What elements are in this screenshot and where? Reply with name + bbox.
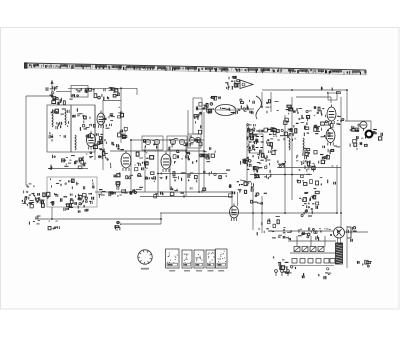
feedback group — [299, 195, 317, 209]
pin diagram box 4 — [206, 250, 215, 271]
small coupling box — [328, 93, 337, 100]
wire coupling bus arrow — [48, 168, 88, 170]
osc left group — [203, 103, 213, 114]
wire inner vertical — [94, 105, 96, 160]
tube V5 EF85 — [327, 105, 336, 125]
AGC mid marks — [48, 221, 59, 230]
IF bottom marks — [154, 187, 206, 198]
label ECH81 — [113, 144, 124, 150]
V6 grid parts — [314, 127, 330, 139]
oscillator can — [193, 98, 202, 134]
wire speaker lead — [345, 231, 368, 233]
loop antenna — [215, 105, 236, 116]
V2 anode parts — [135, 152, 154, 171]
detector parts — [188, 152, 207, 164]
input filter parts — [72, 88, 87, 97]
shield box RF left — [47, 105, 71, 152]
band coil group d — [73, 108, 91, 119]
wire right main vertical — [340, 97, 342, 228]
IF can S2 — [167, 136, 187, 150]
V5 anode parts — [314, 106, 326, 117]
ratio det parts — [297, 148, 318, 164]
eye tube EM80 — [360, 122, 372, 138]
wire eye corner — [370, 121, 372, 131]
wire IF top rail — [130, 139, 204, 141]
right rail marks — [336, 116, 344, 125]
RF top row parts — [51, 95, 72, 105]
FM mid parts 2 — [301, 122, 319, 136]
switch wafer box — [249, 134, 263, 153]
top right ticks — [322, 87, 341, 94]
wire IF v4 — [169, 146, 171, 190]
dial lamp cluster — [225, 76, 240, 90]
band select left — [241, 159, 250, 169]
tube V3 EF89 — [161, 152, 171, 173]
wire IF v3 — [157, 143, 159, 197]
tube V6 EL84 — [326, 126, 335, 146]
eye right pair — [373, 130, 382, 141]
wire AF return bus — [120, 223, 161, 225]
wire trimmer vertical — [270, 92, 272, 112]
IF coil S2 — [154, 139, 159, 144]
wire det vertical — [252, 190, 254, 230]
coil L5 — [289, 138, 290, 150]
IF coil S5 — [189, 137, 194, 142]
wire rectifier rail — [290, 252, 336, 254]
wire speaker xfmr link b — [340, 238, 342, 243]
wire corner drop — [136, 88, 138, 95]
wire cathode rail — [140, 196, 233, 198]
wire left block right edge — [102, 100, 104, 170]
triode V1b ECC85 — [87, 131, 96, 150]
wire stub to filter — [56, 91, 71, 93]
dial drive pointer — [240, 80, 253, 89]
inter-tube marks — [321, 121, 333, 131]
tube V4 EABC80 — [230, 204, 239, 222]
wire FM mid vertical — [284, 115, 286, 213]
coil L3 — [75, 135, 76, 150]
wire AGC bus — [35, 218, 161, 220]
wire IF mid rail — [110, 150, 204, 152]
wire mains vertical — [346, 226, 348, 268]
V3 grid parts — [173, 150, 190, 163]
gang trimmer marks — [118, 107, 124, 118]
IF coil S1 — [145, 139, 150, 144]
wire V4 left vertical — [231, 192, 233, 213]
AM terminal group — [24, 184, 35, 196]
dropper row — [114, 172, 198, 186]
band select group 1 — [244, 155, 271, 169]
mains row — [272, 228, 339, 241]
switch aux group — [276, 129, 295, 141]
band select group 2 — [253, 166, 271, 179]
wire loop rail b — [237, 108, 254, 110]
mains plug group — [281, 266, 296, 274]
wire main HT bus — [160, 212, 337, 214]
speaker terminals — [347, 227, 357, 242]
mains filter group — [273, 256, 289, 269]
wire HT smoothing link — [288, 240, 336, 242]
band coil group c — [49, 132, 65, 141]
coil L2 — [65, 110, 66, 125]
filament chain — [290, 259, 335, 266]
pin diagram box 1 — [166, 249, 180, 271]
wire IF v1 — [130, 140, 132, 192]
FM mid parts — [297, 108, 312, 121]
pin diagram box 5 — [216, 249, 228, 271]
tone network row 1 — [301, 160, 334, 172]
converter dense row — [25, 192, 94, 207]
IF coil S3 — [170, 139, 175, 144]
wire stub left block — [103, 100, 121, 102]
IFT3 inner parts — [189, 135, 202, 147]
wire IF v7 — [203, 112, 205, 192]
V4 grid group — [229, 182, 259, 198]
bus arrowhead — [48, 167, 52, 170]
FM left col parts — [284, 118, 299, 136]
aerial input group — [46, 87, 58, 100]
tone network row 2 — [297, 174, 336, 185]
tube base diagram — [138, 250, 152, 270]
eye tube network — [350, 124, 360, 132]
FM bottom row — [278, 160, 301, 170]
wire loop rail a — [196, 108, 214, 110]
IFT1 inner parts — [143, 140, 157, 149]
input filter box — [71, 86, 88, 98]
wire eye feed vertical — [346, 90, 348, 121]
band coil group a — [51, 109, 69, 114]
IF can S3 — [188, 134, 201, 148]
triode V1a ECC85 — [97, 111, 105, 129]
bus corner bend — [240, 180, 249, 184]
wire converter drop — [51, 207, 53, 219]
switch contact rows — [249, 131, 264, 148]
converter under-box marks — [64, 206, 88, 213]
pin diagram box 3 — [194, 250, 204, 271]
wire mains row rail — [272, 230, 333, 232]
V6 cathode parts — [320, 146, 340, 160]
AF rail ticks — [203, 170, 230, 178]
dial scale strip — [24, 62, 367, 75]
mains terminals — [275, 270, 290, 276]
coil L4 — [303, 138, 304, 150]
pickup terminal group — [257, 216, 280, 235]
wire amp top boundary — [277, 167, 341, 169]
mixer grid group — [86, 133, 103, 148]
left block bottom row — [51, 155, 86, 169]
eye cathode group — [350, 136, 367, 150]
IFT2 inner parts — [169, 139, 188, 151]
wire IF v5 — [185, 143, 187, 197]
wire pickup vertical — [261, 196, 263, 233]
padder top row — [210, 96, 220, 100]
wire out left vertical — [336, 165, 338, 213]
wire V5 top lead — [330, 97, 332, 103]
converter top row — [51, 178, 94, 189]
pilot lamp marks — [358, 260, 372, 267]
FM input group — [286, 105, 299, 114]
wave switch block — [247, 124, 277, 158]
wire speaker xfmr link a — [337, 238, 339, 243]
wire left long vertical — [25, 96, 27, 185]
tuning capacitor C1 — [118, 127, 128, 138]
wire bus riser — [160, 213, 162, 224]
AGC tap group — [29, 216, 40, 225]
voltage sel group — [302, 268, 331, 280]
shield box RF right — [71, 105, 95, 152]
band coil group e — [80, 121, 95, 131]
RF top row right — [89, 88, 120, 101]
IF can S1 — [142, 136, 163, 150]
wire FM left vertical — [291, 97, 293, 200]
V1 cathode group — [86, 149, 105, 159]
coupling group 2 — [301, 207, 313, 217]
loudspeaker LS1 — [334, 227, 352, 238]
oscillator coil parts — [194, 102, 202, 134]
AF takeoff group — [204, 147, 215, 161]
wire IF v6 — [198, 139, 200, 192]
V1 label group — [104, 114, 115, 128]
osc coupling curve — [256, 96, 261, 119]
wire V4 top lead — [237, 192, 239, 206]
wire top right rail — [262, 89, 347, 91]
IF coil S4 — [179, 139, 184, 144]
band coil group b — [56, 121, 69, 129]
right col marks — [104, 139, 113, 168]
wire gang vertical — [120, 88, 122, 143]
loop inner parts — [221, 107, 236, 114]
volume pot group — [302, 189, 319, 205]
wire AF rail right — [250, 174, 312, 176]
trimmer group right — [237, 99, 254, 114]
IF coil S6 — [195, 137, 200, 142]
wire screen rail — [95, 191, 232, 193]
V4 anode group — [251, 193, 267, 205]
volume control group — [98, 187, 143, 198]
tube V2 ECH81 — [121, 151, 131, 172]
wire eye rail — [345, 120, 371, 122]
wire AF rail left — [158, 173, 227, 175]
selenium rectifier stack — [294, 247, 324, 252]
coil L1 — [52, 112, 53, 127]
rectifier link ticks — [297, 236, 325, 247]
wire top RF rail — [68, 87, 137, 89]
wire osc vertical — [187, 110, 189, 135]
AGC junction marks — [115, 221, 121, 230]
mixer input group — [22, 193, 45, 208]
pin diagram box 2 — [182, 250, 192, 271]
converter stage box — [47, 177, 97, 207]
wire IF v2 — [144, 146, 146, 192]
wire switch vertical — [246, 124, 248, 183]
antenna arrowhead — [50, 81, 53, 84]
output transformer T1 — [336, 243, 343, 264]
wire antenna mast — [51, 80, 53, 96]
trimmer group far — [266, 100, 279, 114]
wire anode top rail — [296, 96, 331, 98]
wire dial lamp drop — [261, 92, 263, 107]
wire aerial lead-in — [26, 95, 52, 97]
